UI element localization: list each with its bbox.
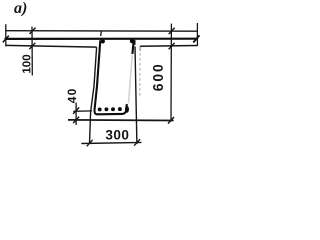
svg-text:40: 40 [65, 87, 79, 103]
svg-text:а): а) [14, 0, 27, 17]
svg-text:600: 600 [150, 62, 166, 91]
svg-text:100: 100 [21, 54, 33, 73]
svg-text:300: 300 [105, 127, 129, 142]
